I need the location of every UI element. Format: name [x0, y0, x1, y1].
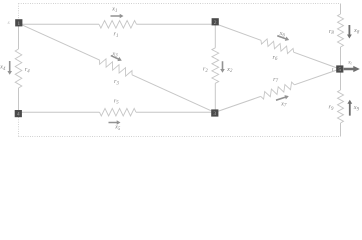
wire R5 to node3 [136, 111, 215, 113]
wire R7 to node5 [294, 69, 339, 85]
dotted return path top border [19, 3, 341, 5]
arrow x7 flow [276, 95, 289, 101]
svg-text:r1: r1 [114, 31, 119, 39]
svg-text:r8: r8 [329, 28, 335, 36]
arrow x4 flow [7, 61, 12, 75]
wire top border to R8 [340, 4, 342, 15]
node 5 [336, 65, 343, 73]
resistor r8 [338, 14, 344, 47]
wire node1 to R1 [19, 23, 99, 25]
node 4 [15, 110, 22, 118]
svg-text:2: 2 [214, 20, 217, 26]
svg-text:x9: x9 [353, 104, 360, 112]
svg-text:r5: r5 [114, 97, 120, 105]
node 3 [211, 109, 218, 117]
wire R8 to node5 [340, 47, 342, 66]
arrow x8 flow [347, 25, 352, 39]
resistor r7 [261, 82, 295, 99]
svg-text:s: s [8, 20, 10, 26]
arrow x5 flow [109, 120, 121, 125]
arrow x3 flow [111, 55, 122, 61]
svg-text:xt: xt [347, 59, 352, 65]
svg-text:x4: x4 [0, 64, 6, 72]
svg-text:1: 1 [17, 21, 20, 27]
svg-text:x2: x2 [226, 66, 233, 74]
wire R2 to node3 [214, 83, 216, 113]
svg-text:r6: r6 [272, 54, 278, 62]
arrow x9 flow [347, 100, 352, 116]
svg-text:r3: r3 [114, 78, 120, 86]
wire R1 to node2 [137, 23, 216, 25]
resistor r5 [100, 108, 137, 116]
arrow x6 flow [277, 35, 289, 41]
svg-text:x1: x1 [111, 6, 117, 14]
dotted lead node 4 to bottom border [18, 117, 20, 136]
wire node2 to R2 [214, 24, 216, 48]
svg-text:x7: x7 [280, 100, 287, 108]
wire node3 to R7 [215, 96, 261, 112]
node 2 [212, 18, 219, 26]
wire node1 to R3 [19, 23, 100, 60]
svg-text:r7: r7 [273, 76, 279, 84]
wire R4 to node4 [18, 88, 20, 114]
wire R9 to bottom border [340, 123, 342, 137]
svg-text:5: 5 [338, 67, 341, 73]
svg-text:4: 4 [17, 112, 20, 118]
wire R3 to node3 [132, 75, 215, 113]
node 1 [15, 19, 22, 27]
wire node4 to R5 [18, 111, 99, 113]
resistor r1 [99, 21, 137, 29]
resistor r6 [261, 39, 294, 54]
dotted return path bottom border [19, 136, 341, 138]
svg-text:r2: r2 [203, 66, 209, 74]
arrow x2 flow [220, 61, 225, 73]
wire R6 to node5 [294, 52, 340, 69]
svg-text:r4: r4 [25, 66, 31, 74]
svg-text:x5: x5 [114, 124, 121, 132]
output arrow x_t [344, 66, 360, 72]
resistor r3 [100, 59, 132, 76]
dotted lead node 1 to top border [18, 4, 20, 20]
svg-text:t: t [332, 67, 334, 73]
arrow x1 flow [111, 14, 124, 19]
resistor r9 [338, 90, 344, 123]
svg-text:r9: r9 [329, 104, 335, 112]
svg-text:x8: x8 [353, 27, 360, 35]
wire node2 to R6 [215, 24, 261, 41]
resistor r4 [15, 49, 22, 88]
wire node1 to R4 [18, 23, 20, 49]
wire node5 to R9 [340, 73, 342, 91]
resistor r2 [212, 48, 219, 84]
svg-text:3: 3 [213, 111, 216, 117]
